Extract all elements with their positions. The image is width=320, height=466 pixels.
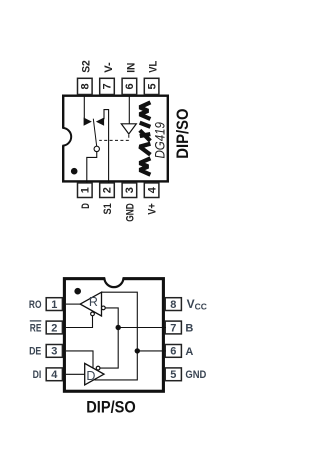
pin 2 box [100,183,115,198]
svg-text:V+: V+ [147,203,159,215]
wire S1 to pin 2 [104,110,109,183]
switch contact arrow S1 [96,118,104,126]
svg-text:7: 7 [102,83,114,89]
wire DE to driver enable [66,351,93,368]
pin 7 box [100,78,115,94]
pin 6 box [165,345,181,358]
switch contact arrow S2 [84,118,92,126]
wire IN from pin 6 [128,96,130,124]
wire pin6 A [137,350,166,352]
switch pivot circle [94,146,99,151]
svg-text:DIP/SO: DIP/SO [86,397,136,416]
pin 1 box [46,298,62,311]
svg-text:B: B [185,322,193,334]
dashed control line [99,135,129,141]
net A wire [95,292,138,380]
svg-text:6: 6 [124,83,136,89]
svg-text:3: 3 [124,187,136,193]
pin 4 box [46,368,62,381]
svg-text:3: 3 [51,346,57,358]
svg-text:D: D [80,203,92,209]
pin label RE (active low) [30,321,42,334]
driver D triangle [85,363,104,385]
pin 6 box [122,78,137,94]
MAXIM logo [140,102,151,174]
notch (package notch, top edge) [104,277,123,288]
IC U2 body [64,279,163,392]
svg-text:GND: GND [185,369,206,381]
svg-text:IN: IN [125,63,137,73]
svg-text:DI: DI [33,369,42,381]
receiver enable bubble (RE) [91,312,95,316]
svg-text:GND: GND [125,203,137,222]
svg-text:2: 2 [51,322,57,334]
wire RE to enable bubble [66,316,93,328]
svg-text:8: 8 [80,83,92,89]
pin 8 box [78,78,93,94]
pin 2 box [46,321,62,334]
wire RO to receiver output [66,303,80,305]
pin 8 box [165,298,181,311]
svg-text:5: 5 [170,369,176,381]
svg-text:6: 6 [170,346,176,358]
svg-text:RE: RE [30,322,42,334]
svg-text:4: 4 [51,369,58,381]
svg-text:VL: VL [148,61,160,73]
wire S2 from pin 8 [83,96,85,118]
svg-text:1: 1 [80,187,92,193]
pin 1 box [78,183,93,198]
driver inverted output bubble [96,366,100,370]
svg-text:D: D [86,369,95,383]
svg-text:R: R [89,295,98,309]
svg-text:8: 8 [170,299,176,311]
pin 1 dot marker [71,168,78,175]
receiver B-input bubble [102,306,106,310]
svg-text:RO: RO [29,299,42,311]
svg-text:7: 7 [170,322,176,334]
svg-text:5: 5 [146,83,158,89]
svg-text:DIP/SO: DIP/SO [173,109,192,159]
svg-text:1: 1 [51,299,57,311]
svg-text:V-: V- [103,62,115,73]
svg-text:S1: S1 [102,203,114,214]
receiver R triangle [80,292,101,316]
pin 4 box [144,183,159,198]
pin 5 box [165,368,181,381]
driver triangle (IN inverter) [121,124,136,134]
pin 5 box [144,78,159,94]
junction node B [116,325,121,330]
pin 3 box [122,183,137,198]
svg-text:2: 2 [102,187,114,193]
pin 7 box [165,321,181,334]
svg-text:4: 4 [146,186,158,193]
wire D to pin 1 [87,152,97,183]
svg-text:DE: DE [29,346,41,358]
pin 3 box [46,345,62,358]
wire pin7 B [118,327,166,329]
pin 1 dot marker [74,288,81,295]
svg-text:DG419: DG419 [152,122,168,159]
switch lever [93,119,96,147]
svg-text:A: A [185,346,193,358]
net B wire [100,308,118,368]
IC U1 body (DG419) [63,96,168,182]
wire DI to driver input [66,373,85,375]
junction node A [135,348,140,353]
notch (package notch, left edge) [61,128,71,146]
svg-text:S2: S2 [81,60,93,73]
